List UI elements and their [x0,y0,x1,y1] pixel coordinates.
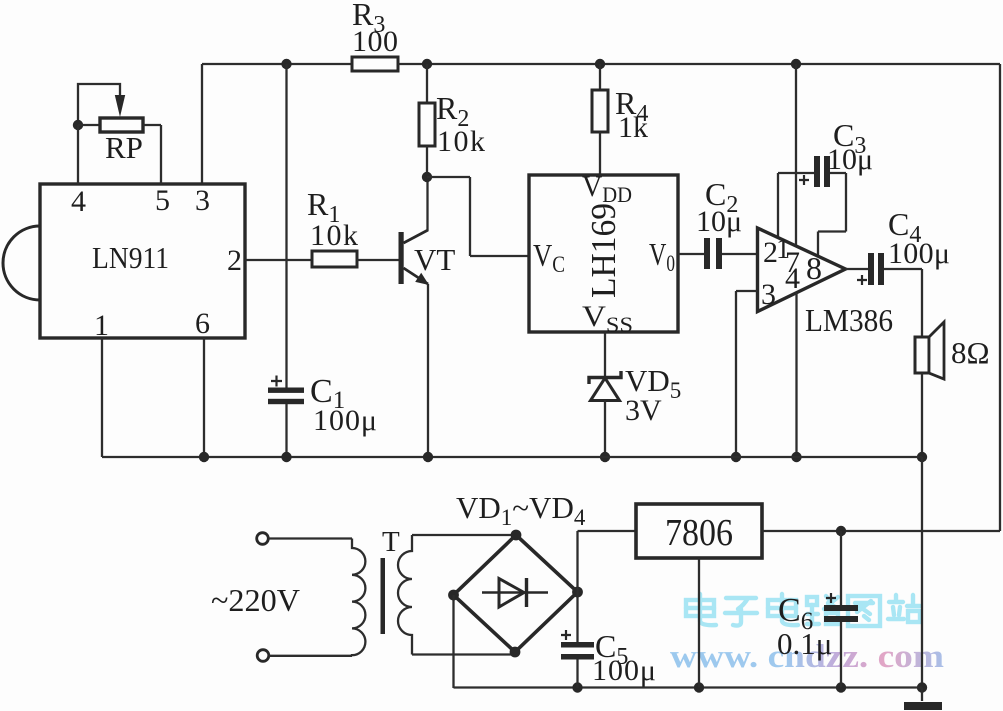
resistor R4 [592,90,608,132]
resistor R3 [352,57,398,71]
bridge rectifier VD1~VD4 diamond [454,535,578,652]
regulator U4 7806 box [636,504,762,558]
wire AC top lead [269,537,353,539]
wire pin 4 column to ground rail [795,293,797,457]
wire RP feedback loop [78,84,120,125]
node C6 top junction [836,526,846,536]
potentiometer RP [100,118,143,132]
wire secondary bottom to bridge [412,653,515,655]
svg-text:VT: VT [414,242,455,277]
C5 polarity plus [561,630,571,640]
svg-text:1: 1 [94,309,109,342]
svg-text:10k: 10k [437,125,485,158]
capacitor C1 top plate [268,388,304,393]
svg-text:6: 6 [195,307,210,340]
zener diode VD5 cathode bar [589,371,621,384]
node R2/collector junction [422,172,432,182]
svg-text:4: 4 [785,262,800,295]
svg-text:100μ: 100μ [888,237,950,270]
op-amp U1 LN911 box [40,184,245,338]
wire to ground symbol [921,688,923,702]
node emitter ground junction [423,452,433,462]
terminal AC top [257,533,269,545]
ground [904,702,942,710]
wire C6 bottom lead [840,622,842,688]
wire VT collector column [426,177,428,231]
svg-text:10k: 10k [310,219,358,252]
wire C1 column upper [285,64,287,388]
watermark char zhan [888,595,920,622]
svg-text:0.1μ: 0.1μ [777,626,832,661]
C6 polarity plus [826,593,836,603]
svg-text:LN911: LN911 [92,240,169,275]
svg-text:8: 8 [806,250,822,286]
wire C5 bottom lead [576,659,578,688]
WATERMARK [670,594,944,675]
wire C3 left lead [778,172,814,174]
wire bridge left vertex down [452,595,454,688]
wire pin 4 column [77,125,79,184]
wire bridge plus up to 7806 input [578,531,637,592]
capacitor C5 bottom plate [561,654,594,660]
resistor R1 [312,251,357,267]
capacitor C5 top plate [561,642,594,648]
wire right edge supply drop [999,64,1001,531]
watermark char dian [686,594,716,625]
node R2 tap on top rail [422,59,432,69]
wire top supply rail right segment [398,63,1000,65]
wire R4 bottom lead to VDD [599,132,601,175]
C1 polarity plus [271,376,282,387]
capacitor C3 right plate [824,156,830,187]
svg-text:LH169: LH169 [584,203,623,298]
wire VSS column [604,332,606,378]
wire R1 to VT base [357,259,399,261]
wire pin 1 column (C3 left) [777,173,779,239]
capacitor C1 bottom plate [268,399,304,404]
VT emitter arrowhead [415,273,429,285]
speaker BL magnet box [915,337,929,373]
wire C2 to pin 2 [722,253,757,255]
wire pin 2 to R1 [245,259,312,261]
wire R4 top lead [599,64,601,90]
wire speaker column to bottom rail [921,457,923,688]
wire V0 to C2 [678,253,704,255]
RP wiper arrow [115,95,125,117]
capacitor C6 bottom plate [824,616,858,622]
node bridge bottom vertex [510,647,521,658]
wire C4 to speaker [884,269,922,337]
svg-text:10μ: 10μ [696,205,742,238]
node bridge top vertex [511,530,522,541]
speaker BL cone [929,322,944,379]
transformer T core [381,558,386,634]
node bottom rail right junction [917,682,927,692]
transistor VT collector stroke [404,230,429,243]
node R4 tap on top rail [595,59,605,69]
wire VD5 anode to ground rail [604,400,606,457]
node pin7 tap on top rail [791,59,801,69]
wire R2 bottom lead [426,146,428,177]
node VD5 ground junction [600,452,610,462]
capacitor C2 right plate [716,238,722,269]
svg-text:5: 5 [155,184,170,217]
transistor Q1 VT base bar [399,232,404,284]
watermark char dian2 [768,594,798,625]
wire pin 3 lead [736,290,757,292]
node pin6 ground junction [199,452,209,462]
resistor R2 [419,103,435,146]
wire C3 right lead to pin 8 [818,173,846,258]
wire secondary top to bridge [412,534,516,536]
C3 polarity plus [799,175,809,185]
capacitor C2 left plate [704,238,710,269]
node speaker ground junction [917,452,927,462]
svg-text:100μ: 100μ [313,404,377,437]
bridge inner diode cathode bar [525,578,528,607]
IC U2 LH169 box [529,175,678,332]
svg-text:10μ: 10μ [827,143,873,176]
svg-text:RP: RP [105,130,143,165]
capacitor C4 right plate [878,253,884,285]
node 7806 gnd junction [694,682,704,692]
node bridge right vertex [572,587,583,598]
node C6 bottom junction [836,682,846,692]
svg-text:2: 2 [227,244,242,277]
svg-text:~220V: ~220V [211,582,300,618]
svg-text:100μ: 100μ [592,654,656,687]
watermark char lu [807,596,839,624]
wire R2 top lead [426,64,428,103]
microphone dome of LN911 [3,226,40,300]
wire RP left lead [78,124,100,126]
wire C1 column lower [285,404,287,457]
svg-text:8Ω: 8Ω [951,335,990,370]
node C1 ground junction [281,452,291,462]
wire output pin 5 to C4 [846,268,869,270]
C4 polarity plus [857,275,867,285]
wire pin 3 column [201,64,203,184]
capacitor C3 left plate [814,156,820,187]
wire 7806 ground pin [698,558,700,688]
node pin4 ground junction [791,452,801,462]
node C5 bottom junction [572,682,582,692]
capacitor C4 left plate [868,253,874,285]
wire pin 6 column of LN911 [203,338,205,457]
wire 7806 output to right edge [762,530,1000,532]
wire C6 top lead [840,531,842,605]
svg-text:3V: 3V [625,394,662,427]
transformer T primary winding [352,539,365,657]
wire AC bottom lead [269,655,352,657]
transformer T secondary winding [398,535,412,655]
node RP left junction [73,120,83,130]
svg-text:LM386: LM386 [805,302,893,338]
svg-text:3: 3 [761,278,776,311]
svg-text:1k: 1k [618,111,648,144]
watermark char zi [725,598,757,626]
svg-text:100: 100 [352,25,398,58]
wire top supply rail left segment [202,63,352,65]
node pin3 ground junction [731,452,741,462]
terminal AC bottom [257,650,269,662]
node bridge left vertex [448,590,459,601]
wire pin 7 column from top rail [795,64,797,247]
svg-text:7806: 7806 [665,512,733,554]
wire collector junction to VC of LH169 [427,177,529,256]
wire C5 top lead [576,592,578,643]
bridge inner diode line [482,591,548,593]
wire bottom ground rail [454,686,923,688]
svg-text:T: T [382,526,400,558]
transistor VT emitter stroke [404,268,429,284]
zener diode VD5 triangle [591,378,620,401]
op-amp U3 LM386 triangle [758,228,846,312]
watermark char tu [848,596,880,626]
node C1 tap on top rail [281,59,291,69]
svg-text:4: 4 [71,185,86,218]
wire pin 1 column of LN911 [101,338,103,457]
svg-text:VD1~VD4: VD1~VD4 [456,490,586,530]
capacitor C6 top plate [824,605,858,611]
wire VT emitter column [427,284,429,457]
svg-text:3: 3 [195,184,210,217]
wire pin 3 column to ground rail [735,291,737,457]
wire RP right lead to pin 5 [143,125,161,184]
wire ground rail (upper circuit) [102,456,922,458]
wire speaker bottom column [921,373,923,457]
bridge inner diode triangle [499,579,524,608]
